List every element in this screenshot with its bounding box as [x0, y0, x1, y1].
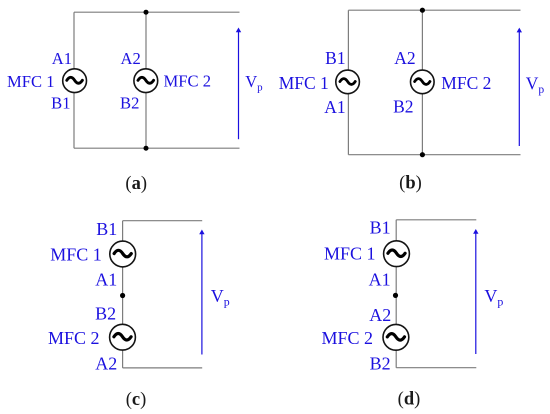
svg-text:(a): (a) — [125, 174, 147, 194]
wire: (b) bottom horizontal — [348, 154, 520, 156]
svg-text:Vp: Vp — [211, 286, 230, 309]
junction node: (b) bottom — [420, 152, 425, 157]
svg-text:B1: B1 — [370, 218, 391, 238]
svg-text:A1: A1 — [324, 97, 345, 117]
wire: (d) series vertical — [395, 220, 397, 368]
AC source MFC 2 (d) — [383, 324, 409, 350]
wire: (b) top horizontal — [348, 9, 520, 11]
svg-text:A2: A2 — [369, 305, 391, 325]
junction node: (d) middle — [393, 293, 398, 298]
junction node: (a) bottom — [144, 146, 149, 151]
svg-text:Vp: Vp — [484, 286, 503, 309]
wire: (a) top horizontal — [74, 11, 240, 13]
AC source MFC 1 (a) — [63, 69, 87, 93]
svg-text:Vp: Vp — [526, 74, 545, 97]
svg-text:MFC 2: MFC 2 — [321, 328, 373, 348]
wire: (c) bottom horizontal — [123, 367, 203, 369]
wire: (a) left vertical branch — [73, 12, 75, 148]
svg-text:B2: B2 — [370, 354, 391, 374]
AC source MFC 1 (b) — [336, 70, 360, 94]
AC source MFC 2 (c) — [110, 324, 136, 350]
svg-text:B1: B1 — [96, 219, 117, 239]
voltage arrow Vp (b) — [517, 28, 522, 146]
svg-text:MFC 1: MFC 1 — [50, 245, 102, 265]
svg-text:A2: A2 — [394, 48, 415, 68]
AC source MFC 2 (a) — [134, 69, 158, 93]
svg-text:A1: A1 — [369, 269, 391, 289]
svg-text:B1: B1 — [325, 48, 345, 68]
svg-text:A2: A2 — [95, 354, 117, 374]
svg-text:B2: B2 — [120, 94, 139, 113]
svg-text:MFC 2: MFC 2 — [48, 328, 100, 348]
wire: (a) middle vertical branch — [145, 12, 147, 148]
svg-text:B2: B2 — [95, 303, 116, 323]
junction node: (a) top — [144, 10, 149, 15]
svg-text:MFC 1: MFC 1 — [7, 72, 55, 91]
junction node: (c) middle — [120, 293, 125, 298]
wire: (c) top horizontal — [123, 220, 203, 222]
svg-text:A1: A1 — [52, 49, 72, 68]
svg-text:(b): (b) — [399, 173, 422, 193]
svg-text:B2: B2 — [393, 97, 413, 117]
svg-text:Vp: Vp — [245, 72, 263, 94]
voltage arrow Vp (d) — [473, 229, 478, 354]
wire: (c) series vertical — [122, 221, 124, 368]
wire: (a) bottom horizontal — [74, 147, 240, 149]
svg-text:MFC 1: MFC 1 — [324, 244, 376, 264]
wire: (b) middle vertical branch — [421, 10, 423, 155]
svg-text:(d): (d) — [398, 389, 421, 409]
AC source MFC 1 (c) — [110, 241, 136, 267]
svg-text:MFC 2: MFC 2 — [164, 71, 212, 90]
AC source MFC 2 (b) — [411, 70, 435, 94]
voltage arrow Vp (c) — [199, 230, 204, 355]
junction node: (b) top — [420, 8, 425, 13]
wire: (b) left vertical branch — [347, 10, 349, 155]
wire: (d) top horizontal — [396, 219, 476, 221]
svg-text:MFC 2: MFC 2 — [441, 73, 491, 93]
voltage arrow Vp (a) — [236, 28, 241, 140]
AC source MFC 1 (d) — [384, 241, 410, 267]
wire: (d) bottom horizontal — [396, 367, 476, 369]
svg-text:A1: A1 — [95, 269, 117, 289]
svg-text:A2: A2 — [121, 49, 141, 68]
svg-text:(c): (c) — [126, 390, 147, 410]
svg-text:MFC 1: MFC 1 — [279, 73, 329, 93]
svg-text:B1: B1 — [51, 94, 70, 113]
